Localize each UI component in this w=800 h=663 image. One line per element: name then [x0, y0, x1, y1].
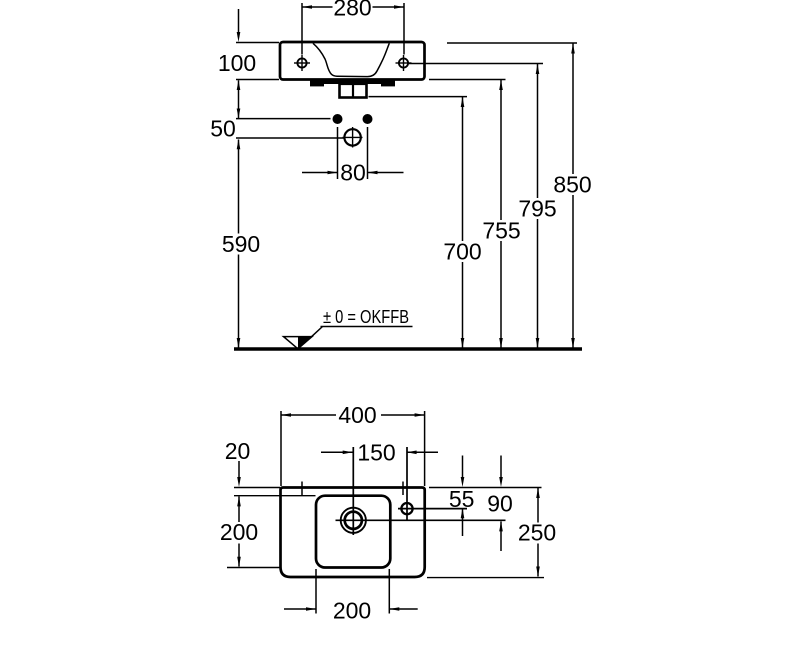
svg-text:± 0 = OKFFB: ± 0 = OKFFB	[323, 307, 409, 327]
svg-text:200: 200	[333, 598, 371, 624]
svg-text:80: 80	[340, 160, 366, 186]
svg-text:850: 850	[553, 172, 591, 198]
svg-text:590: 590	[222, 231, 260, 257]
svg-text:795: 795	[518, 196, 556, 222]
svg-text:50: 50	[210, 116, 236, 142]
svg-text:280: 280	[333, 0, 371, 21]
svg-text:150: 150	[357, 439, 395, 465]
svg-text:400: 400	[338, 402, 376, 428]
svg-text:700: 700	[443, 239, 481, 265]
svg-text:55: 55	[449, 486, 475, 512]
svg-text:250: 250	[518, 519, 556, 545]
svg-text:200: 200	[220, 519, 258, 545]
svg-text:20: 20	[225, 438, 251, 464]
svg-text:755: 755	[482, 218, 520, 244]
svg-text:100: 100	[218, 50, 256, 76]
svg-text:90: 90	[487, 490, 513, 516]
